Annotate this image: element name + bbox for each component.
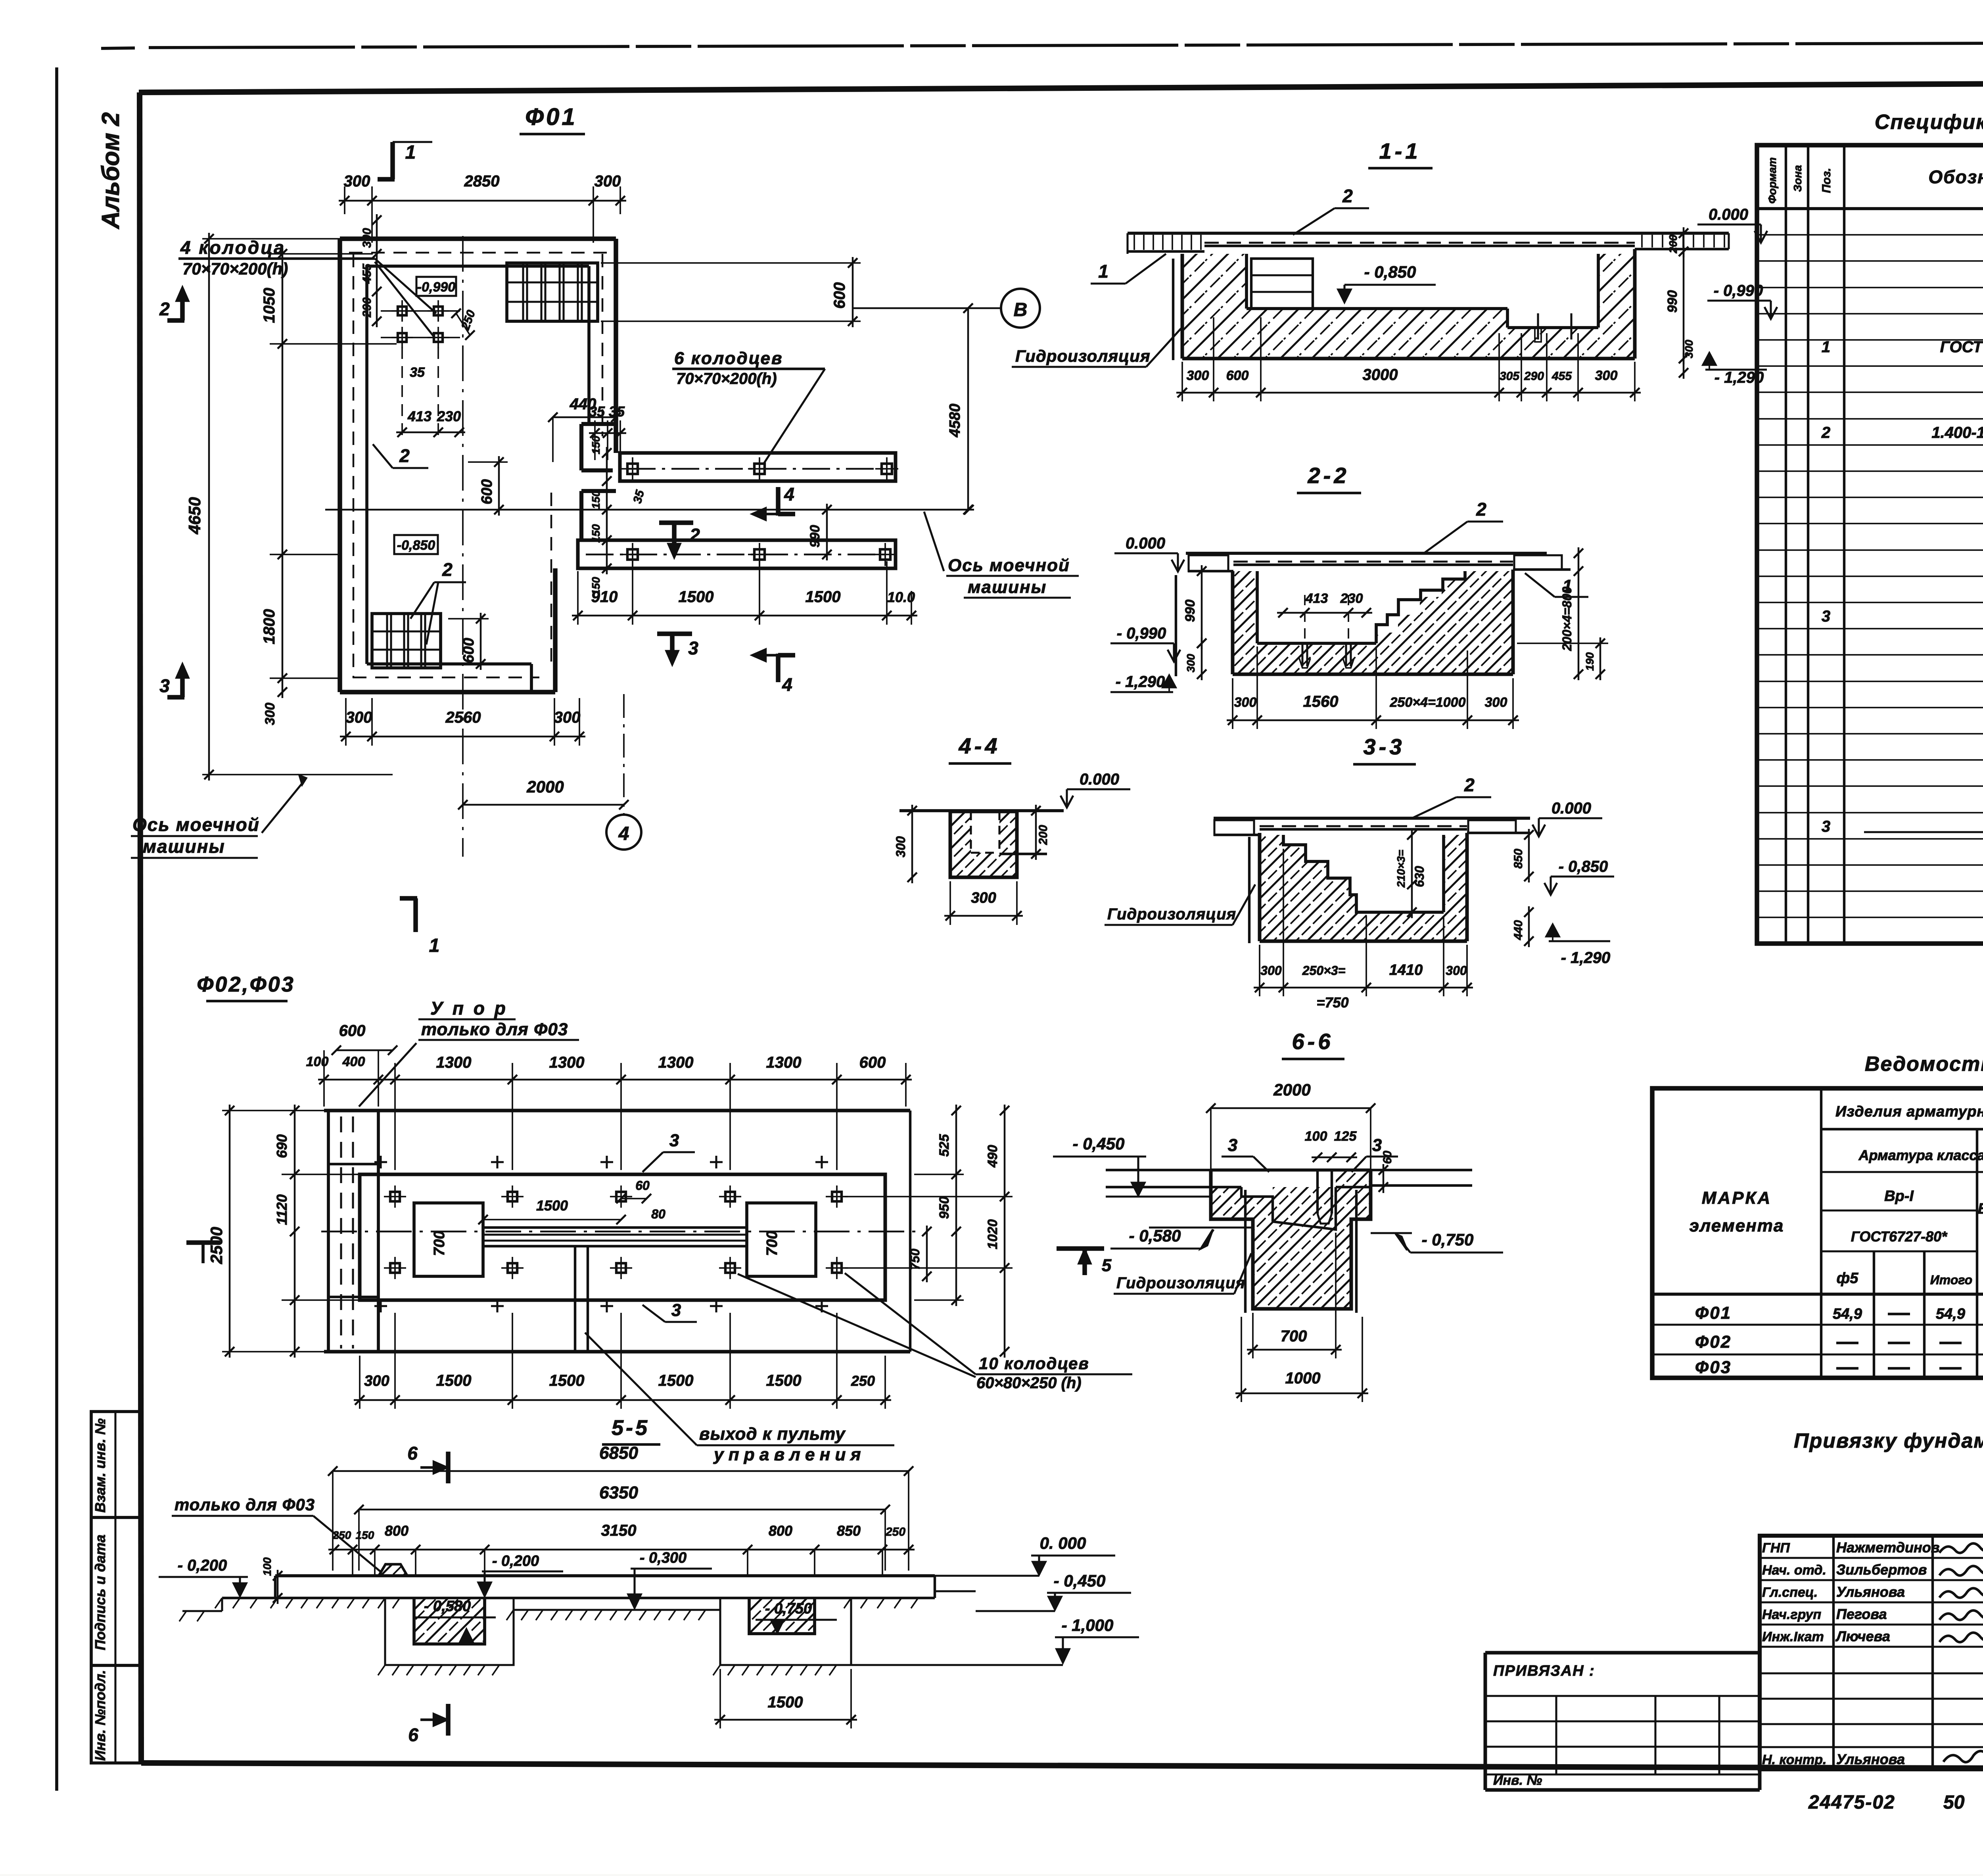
- plan Ф01 dim 600 bottom: [448, 613, 489, 670]
- level label -0,850: [394, 535, 438, 554]
- svg-text:600: 600: [479, 479, 495, 504]
- section 6-6 dim 2000: [1206, 1080, 1375, 1170]
- section 5-5 level -0,580: [414, 1598, 496, 1642]
- svg-text:100: 100: [306, 1054, 329, 1069]
- svg-text:2500: 2500: [207, 1227, 226, 1264]
- svg-text:300: 300: [344, 173, 370, 190]
- rail bolt wells: [621, 457, 898, 566]
- plan Ф01 dim 600 right: [601, 257, 861, 327]
- svg-text:250×4=1000: 250×4=1000: [1390, 695, 1466, 710]
- svg-text:700: 700: [764, 1231, 781, 1256]
- section mark 1 top: [378, 142, 432, 179]
- svg-text:300: 300: [554, 709, 581, 726]
- axis to circle B: [325, 308, 1001, 514]
- section mark 2 right: [659, 523, 700, 557]
- svg-text:300: 300: [1185, 654, 1197, 672]
- section 2-2 dims 413 230: [1277, 591, 1372, 618]
- plan Ф01 dim 440: [548, 395, 621, 462]
- svg-text:70×70×200(h): 70×70×200(h): [676, 370, 777, 387]
- plan Ф01 bottom dim chain 300 2560 300: [340, 698, 585, 746]
- section 1-1 gidroizolyatsiya label: [1012, 328, 1181, 367]
- svg-text:1500: 1500: [549, 1372, 585, 1389]
- plan Ф01 mesh zone top right: [507, 263, 598, 321]
- section 5-5 right levels: [851, 1534, 1139, 1665]
- svg-text:400: 400: [342, 1054, 365, 1069]
- svg-text:Альбом 2: Альбом 2: [97, 112, 125, 230]
- svg-text:1500: 1500: [768, 1694, 803, 1711]
- svg-text:600: 600: [339, 1022, 366, 1040]
- section 3-3 body: [1214, 818, 1530, 943]
- svg-text:Формат: Формат: [1766, 157, 1778, 204]
- svg-text:2850: 2850: [464, 173, 500, 190]
- section 4-4 level 0.000: [1061, 771, 1130, 808]
- svg-text:=750: =750: [1316, 994, 1348, 1011]
- section 3-3 right levels: [1512, 800, 1614, 967]
- plan Ф01 top dimension chain 300 2850 300: [339, 173, 626, 243]
- section 1-1 title: [1368, 138, 1433, 168]
- svg-text:Ось моечной: Ось моечной: [132, 814, 260, 835]
- svg-text:у п р а в л е н и я: у п р а в л е н и я: [713, 1445, 861, 1464]
- svg-text:1560: 1560: [1303, 693, 1339, 710]
- svg-text:100: 100: [1305, 1129, 1327, 1144]
- svg-text:выход к пульту: выход к пульту: [699, 1424, 846, 1444]
- svg-text:290: 290: [1524, 370, 1544, 383]
- svg-text:Ведомость расхода стали на: Ведомость расхода стали на элемент, кг: [1865, 1053, 1983, 1076]
- label tolko dlya F03: [172, 1495, 381, 1572]
- section 3-3 bottom dims: [1254, 849, 1473, 1011]
- note privyazku fundamentov: [1794, 1429, 1983, 1452]
- section mark 6 top: [407, 1443, 448, 1483]
- svg-text:80: 80: [651, 1207, 665, 1221]
- plan Ф02 Ф03 inner dims 1500 60 80: [478, 1178, 665, 1224]
- section mark 4 upper: [753, 484, 795, 520]
- svg-text:300: 300: [1446, 963, 1467, 978]
- level label -0,990: [416, 277, 456, 296]
- callout 2 (bottom mesh): [410, 559, 466, 645]
- plan Ф01 small chain 300 455 290: [361, 214, 382, 327]
- svg-text:1300: 1300: [766, 1054, 802, 1071]
- svg-text:Н. контр.: Н. контр.: [1762, 1752, 1826, 1767]
- plan Ф01 title: [520, 104, 585, 134]
- axis circle B: [1001, 289, 1040, 328]
- svg-text:Нач. отд.: Нач. отд.: [1762, 1563, 1826, 1578]
- svg-text:300: 300: [1187, 368, 1209, 383]
- label vykhod k pultu: [585, 1333, 894, 1464]
- svg-text:Нажметдинов: Нажметдинов: [1836, 1539, 1939, 1556]
- plan Ф01 outline: [340, 239, 616, 692]
- svg-text:250: 250: [851, 1373, 875, 1389]
- svg-text:0. 000: 0. 000: [1040, 1534, 1086, 1552]
- svg-text:1120: 1120: [274, 1194, 290, 1225]
- svg-text:Лючева: Лючева: [1835, 1628, 1890, 1644]
- svg-text:2: 2: [159, 299, 170, 319]
- plan Ф02 Ф03 title: [197, 973, 295, 1001]
- svg-text:6350: 6350: [599, 1483, 638, 1502]
- svg-text:70×70×200(h): 70×70×200(h): [182, 259, 288, 278]
- svg-text:750: 750: [908, 1249, 922, 1270]
- section 6-6 title: [1282, 1029, 1344, 1059]
- svg-text:5: 5: [1102, 1256, 1112, 1275]
- svg-text:150: 150: [590, 435, 602, 454]
- svg-text:только для Ф03: только для Ф03: [175, 1495, 315, 1514]
- svg-text:24475-02: 24475-02: [1808, 1792, 1895, 1813]
- rail dim 990: [807, 504, 832, 560]
- svg-text:1300: 1300: [436, 1054, 472, 1071]
- section 3-3 title: [1353, 734, 1416, 764]
- svg-text:Ульянова: Ульянова: [1836, 1751, 1905, 1767]
- svg-text:2: 2: [1476, 499, 1486, 520]
- svg-text:Обозначение: Обозначение: [1928, 167, 1983, 187]
- svg-text:Взам. инв. №: Взам. инв. №: [92, 1418, 108, 1513]
- plan Ф01 mesh zone bottom left: [372, 614, 441, 668]
- svg-text:- 0,200: - 0,200: [178, 1557, 227, 1574]
- section 6-6 level -0,750: [1371, 1230, 1503, 1253]
- svg-text:600: 600: [859, 1054, 886, 1071]
- section 3-3 callout 2: [1412, 775, 1491, 818]
- svg-text:300: 300: [1234, 695, 1257, 710]
- svg-text:200: 200: [1667, 234, 1679, 253]
- svg-text:6: 6: [407, 1443, 418, 1464]
- svg-text:В: В: [1014, 299, 1028, 320]
- section 1-1 callout 2: [1293, 186, 1369, 235]
- svg-text:1500: 1500: [766, 1372, 802, 1389]
- specification table header: [1766, 157, 1983, 204]
- svg-text:3: 3: [1228, 1136, 1237, 1155]
- section 2-2 callout 1: [1525, 573, 1588, 597]
- svg-text:990: 990: [1183, 600, 1198, 622]
- svg-text:0.000: 0.000: [1126, 535, 1165, 552]
- label 10 kolodtsev: [738, 1273, 1132, 1392]
- section 1-1 bottom dims: [1176, 317, 1641, 401]
- svg-text:1: 1: [429, 935, 440, 956]
- section mark 3 right: [657, 634, 698, 664]
- svg-text:490: 490: [985, 1145, 1000, 1168]
- label 4 kolodtsa: [178, 237, 436, 337]
- svg-text:Ф02,Ф03: Ф02,Ф03: [197, 973, 295, 996]
- axis label Os moechnoy mashiny bottom: [131, 775, 306, 858]
- svg-text:60: 60: [635, 1178, 650, 1193]
- Album 2 vertical label: [97, 112, 125, 230]
- svg-text:210×3=: 210×3=: [1395, 850, 1407, 888]
- svg-text:150: 150: [356, 1529, 374, 1541]
- svg-text:- 0,750: - 0,750: [1422, 1230, 1474, 1249]
- section 6-6 callout 3 right: [1352, 1136, 1398, 1172]
- svg-text:600: 600: [1226, 368, 1249, 383]
- svg-text:Итого: Итого: [1930, 1273, 1972, 1287]
- section 5-5 dim 6350: [354, 1483, 890, 1571]
- svg-text:700: 700: [1281, 1327, 1307, 1345]
- section mark 5 left: [186, 1243, 220, 1263]
- svg-text:300: 300: [1260, 963, 1282, 978]
- svg-text:300: 300: [971, 890, 996, 906]
- section 6-6 dim 700: [1247, 1233, 1342, 1358]
- svg-text:Вр-I: Вр-I: [1884, 1188, 1914, 1205]
- svg-text:0.000: 0.000: [1551, 800, 1591, 817]
- plan Ф02 Ф03 bolt wells: [374, 1156, 848, 1312]
- svg-text:300: 300: [263, 703, 278, 725]
- svg-text:125: 125: [1334, 1129, 1357, 1144]
- svg-text:150: 150: [590, 524, 602, 543]
- svg-text:Гидроизоляция: Гидроизоляция: [1107, 905, 1236, 923]
- svg-text:У п о р: У п о р: [430, 998, 508, 1019]
- svg-text:455: 455: [1551, 370, 1572, 383]
- steel table header texts: [1690, 1101, 1983, 1287]
- svg-text:Гидроизоляция: Гидроизоляция: [1015, 347, 1151, 365]
- svg-text:4580: 4580: [947, 404, 963, 438]
- svg-text:- 1,000: - 1,000: [1062, 1616, 1114, 1634]
- svg-text:2: 2: [689, 525, 700, 545]
- svg-text:1410: 1410: [1389, 962, 1423, 978]
- svg-text:4650: 4650: [185, 497, 204, 534]
- svg-text:3: 3: [1822, 818, 1830, 835]
- svg-text:10 колодцев: 10 колодцев: [979, 1354, 1089, 1373]
- svg-text:413: 413: [1305, 591, 1328, 606]
- svg-text:- 0,450: - 0,450: [1073, 1134, 1125, 1153]
- svg-text:10.0: 10.0: [887, 589, 915, 605]
- svg-text:Поз.: Поз.: [1820, 168, 1833, 193]
- svg-text:Нач.груп: Нач.груп: [1762, 1607, 1821, 1622]
- svg-text:300: 300: [364, 1373, 389, 1389]
- svg-text:- 0,200: - 0,200: [492, 1553, 539, 1569]
- svg-text:Ф01: Ф01: [525, 104, 577, 130]
- svg-text:Ф03: Ф03: [1695, 1358, 1732, 1377]
- svg-text:630: 630: [1412, 866, 1427, 887]
- section 5-5 level -0,750: [756, 1600, 837, 1632]
- svg-text:Ульянова: Ульянова: [1836, 1584, 1905, 1600]
- svg-text:3150: 3150: [601, 1522, 637, 1539]
- section mark 4 lower: [753, 650, 795, 695]
- svg-text:- 0,300: - 0,300: [640, 1550, 687, 1566]
- svg-text:1000: 1000: [1285, 1370, 1321, 1387]
- svg-text:35: 35: [410, 365, 425, 380]
- svg-text:700: 700: [431, 1231, 448, 1256]
- axis label Os moechnoy mashiny right: [924, 512, 1079, 598]
- section 1-1 callout 1: [1091, 254, 1166, 284]
- svg-text:1500: 1500: [436, 1372, 472, 1389]
- svg-text:413: 413: [407, 408, 432, 424]
- section 3-3 rotated dims 210x3 630: [1395, 829, 1427, 918]
- svg-text:ПРИВЯЗАН :: ПРИВЯЗАН :: [1493, 1663, 1595, 1679]
- svg-text:машины: машины: [143, 836, 225, 857]
- section 1-1 right levels: [1665, 206, 1777, 386]
- svg-text:МАРКА: МАРКА: [1702, 1188, 1772, 1208]
- section 6-6 level -0,580: [1110, 1226, 1253, 1249]
- plan Ф02 Ф03 right dims: [845, 1105, 1013, 1358]
- svg-text:6-6: 6-6: [1292, 1029, 1334, 1054]
- plan Ф02 Ф03 callouts 3: [642, 1131, 697, 1322]
- svg-text:1: 1: [1822, 338, 1830, 356]
- svg-text:1.400-15, вып. 1: 1.400-15, вып. 1: [1931, 424, 1983, 441]
- label 5-5: [602, 1416, 660, 1444]
- svg-text:300: 300: [894, 836, 908, 857]
- svg-text:1500: 1500: [536, 1197, 568, 1214]
- svg-text:- 1,290: - 1,290: [1116, 673, 1165, 691]
- steel table grid: [1652, 1088, 1983, 1378]
- svg-text:- 1,290: - 1,290: [1561, 949, 1611, 967]
- svg-text:1500: 1500: [658, 1372, 694, 1389]
- section 2-2 right dims: [1517, 547, 1608, 680]
- section 2-2 body: [1176, 553, 1571, 676]
- section 4-4 dim 300 bottom: [944, 881, 1023, 925]
- plan Ф02 Ф03 bottom dims: [354, 1313, 891, 1409]
- svg-text:2: 2: [399, 445, 410, 466]
- svg-text:-0,850: -0,850: [397, 538, 435, 553]
- section 6-6 callout 3 left: [1222, 1136, 1269, 1172]
- svg-text:230: 230: [437, 408, 461, 424]
- svg-text:290: 290: [361, 297, 374, 318]
- svg-text:элемента: элемента: [1690, 1216, 1784, 1235]
- svg-text:305: 305: [1500, 370, 1520, 383]
- left margin stamp boxes: [91, 1412, 140, 1763]
- plan Ф01 left dim chain 1050 1800 300: [261, 248, 397, 725]
- svg-text:525: 525: [937, 1134, 952, 1157]
- section 6-6 body: [1106, 1170, 1472, 1313]
- svg-text:600: 600: [831, 282, 848, 309]
- svg-text:35 35: 35 35: [589, 403, 625, 420]
- column axis line vertical: [462, 236, 464, 857]
- section 5-5 dim 1500: [714, 1669, 857, 1728]
- svg-text:Ось моечной: Ось моечной: [948, 556, 1070, 575]
- section 5-5 dim chain: [328, 1522, 915, 1576]
- section 6-6 gidroizolyatsiya label: [1114, 1253, 1251, 1294]
- svg-text:250×3=: 250×3=: [1302, 963, 1346, 978]
- svg-text:54,9: 54,9: [1833, 1306, 1862, 1322]
- plan Ф02 Ф03 top dims: [306, 1022, 912, 1170]
- svg-text:3: 3: [669, 1131, 679, 1150]
- svg-text:Ф01: Ф01: [1695, 1303, 1732, 1323]
- steel table title: [1865, 1053, 1983, 1076]
- svg-text:50: 50: [1943, 1792, 1965, 1813]
- svg-text:4-4: 4-4: [959, 733, 1001, 758]
- svg-text:- 0,990: - 0,990: [1117, 625, 1166, 642]
- section 6-6 dim 1000: [1235, 1317, 1368, 1402]
- label 6 kolodtsev: [672, 349, 825, 464]
- label Upor tolko dlya F03: [359, 998, 579, 1107]
- bottom margin texts: [1808, 1776, 1983, 1816]
- svg-text:машины: машины: [968, 577, 1047, 597]
- svg-text:455: 455: [361, 263, 374, 284]
- plan Ф01 anchor bolts: [381, 300, 478, 348]
- svg-text:4 колодца: 4 колодца: [180, 237, 286, 258]
- outer scan border left line: [55, 67, 58, 1791]
- svg-text:0.000: 0.000: [1080, 771, 1119, 788]
- svg-text:Инв. №: Инв. №: [1493, 1773, 1542, 1788]
- svg-text:- 0,580: - 0,580: [1129, 1226, 1181, 1245]
- dim 4580 vertical: [947, 303, 973, 514]
- svg-text:ГОСТ 8478-81: ГОСТ 8478-81: [1940, 338, 1983, 356]
- svg-text:150: 150: [590, 490, 602, 509]
- svg-text:250: 250: [885, 1525, 905, 1538]
- title block privyazan box: [1485, 1653, 1760, 1790]
- section 1-1 inner mesh block: [1251, 259, 1313, 309]
- svg-text:4: 4: [784, 484, 794, 504]
- specification table title: [1875, 111, 1983, 134]
- svg-text:300: 300: [361, 228, 374, 248]
- svg-text:990: 990: [807, 525, 823, 548]
- svg-text:4: 4: [782, 674, 792, 695]
- section 5-5 small dim 100: [261, 1557, 282, 1604]
- specification table grid: [1757, 145, 1983, 944]
- section 1-1 body: [1128, 233, 1729, 360]
- svg-text:2000: 2000: [526, 777, 564, 796]
- svg-text:Спецификация элементов на о: Спецификация элементов на один фундамент: [1875, 111, 1983, 134]
- section mark 1 bottom: [400, 898, 439, 956]
- svg-text:800: 800: [769, 1523, 792, 1539]
- svg-text:1: 1: [405, 142, 416, 163]
- svg-text:1500: 1500: [805, 588, 841, 606]
- svg-text:1500: 1500: [679, 588, 714, 606]
- svg-text:1300: 1300: [549, 1054, 585, 1071]
- svg-text:850: 850: [837, 1523, 861, 1539]
- section 4-4 dim 200 right: [1031, 805, 1050, 860]
- svg-text:230: 230: [1340, 591, 1363, 606]
- svg-text:Пегова: Пегова: [1836, 1606, 1887, 1622]
- svg-text:2: 2: [1342, 186, 1353, 206]
- svg-text:3: 3: [671, 1301, 681, 1320]
- section 2-2 bottom dims: [1227, 646, 1519, 729]
- svg-text:1: 1: [1098, 261, 1108, 282]
- section 2-2 callout 2: [1424, 499, 1503, 553]
- rail small dims 35 35 150: [589, 403, 647, 595]
- svg-text:ф5: ф5: [1837, 1270, 1859, 1287]
- svg-text:Привязку фундаментов Ф02, Ф0: Привязку фундаментов Ф02, Ф03 см. лист 1…: [1794, 1429, 1983, 1452]
- svg-text:690: 690: [274, 1134, 290, 1158]
- section mark 6 bottom: [408, 1704, 448, 1745]
- svg-text:6850: 6850: [599, 1443, 638, 1463]
- section 2-2 title: [1297, 463, 1361, 493]
- section 6-6 mark 5: [1057, 1249, 1112, 1275]
- svg-text:2: 2: [1821, 424, 1830, 441]
- svg-text:190: 190: [1584, 652, 1596, 671]
- steel table data rows: [1695, 1303, 1983, 1377]
- svg-text:200: 200: [1037, 825, 1050, 845]
- svg-text:54,9: 54,9: [1936, 1306, 1965, 1322]
- svg-text:1-1: 1-1: [1379, 138, 1421, 163]
- section 6-6 dims 100 125 60: [1305, 1129, 1394, 1193]
- section 4-4 title: [949, 733, 1011, 763]
- svg-text:1800: 1800: [261, 609, 278, 645]
- section 4-4 dim 300 left: [894, 805, 917, 883]
- svg-text:Изделия арматурные: Изделия арматурные: [1835, 1103, 1983, 1120]
- section 3-3 gidroizolyatsiya label: [1105, 884, 1255, 925]
- svg-text:3-3: 3-3: [1364, 734, 1405, 759]
- section mark 3 left: [159, 665, 188, 697]
- svg-text:800: 800: [385, 1523, 408, 1539]
- plan Ф01 dim 2000: [458, 777, 629, 809]
- svg-text:990: 990: [1665, 290, 1680, 313]
- svg-text:3: 3: [1372, 1136, 1382, 1155]
- plan Ф02 Ф03 left dims: [207, 1105, 361, 1358]
- svg-text:Зона: Зона: [1791, 165, 1804, 192]
- svg-text:0.000: 0.000: [1709, 206, 1748, 223]
- svg-text:Гл.спец.: Гл.спец.: [1762, 1585, 1818, 1600]
- svg-text:60×80×250 (h): 60×80×250 (h): [976, 1374, 1082, 1392]
- svg-text:300: 300: [1683, 340, 1695, 358]
- svg-text:300: 300: [1485, 695, 1507, 710]
- svg-text:6 колодцев: 6 колодцев: [674, 349, 783, 368]
- svg-text:4: 4: [618, 823, 629, 844]
- plan Ф02 Ф03 pads 700: [414, 1203, 816, 1276]
- svg-text:- 0,580: - 0,580: [424, 1598, 471, 1615]
- svg-text:3: 3: [1822, 608, 1830, 625]
- specification table rows: [1821, 212, 1983, 914]
- svg-text:- 0,450: - 0,450: [1054, 1571, 1106, 1590]
- plan Ф01 dim 600 middle: [468, 456, 508, 516]
- section 5-5 dim 6850: [328, 1443, 913, 1571]
- plan Ф01 dims 413 230: [396, 347, 465, 438]
- svg-text:Подпись и дата: Подпись и дата: [92, 1535, 108, 1650]
- section 5-5 levels -0,200 -0,300 middle: [478, 1550, 712, 1608]
